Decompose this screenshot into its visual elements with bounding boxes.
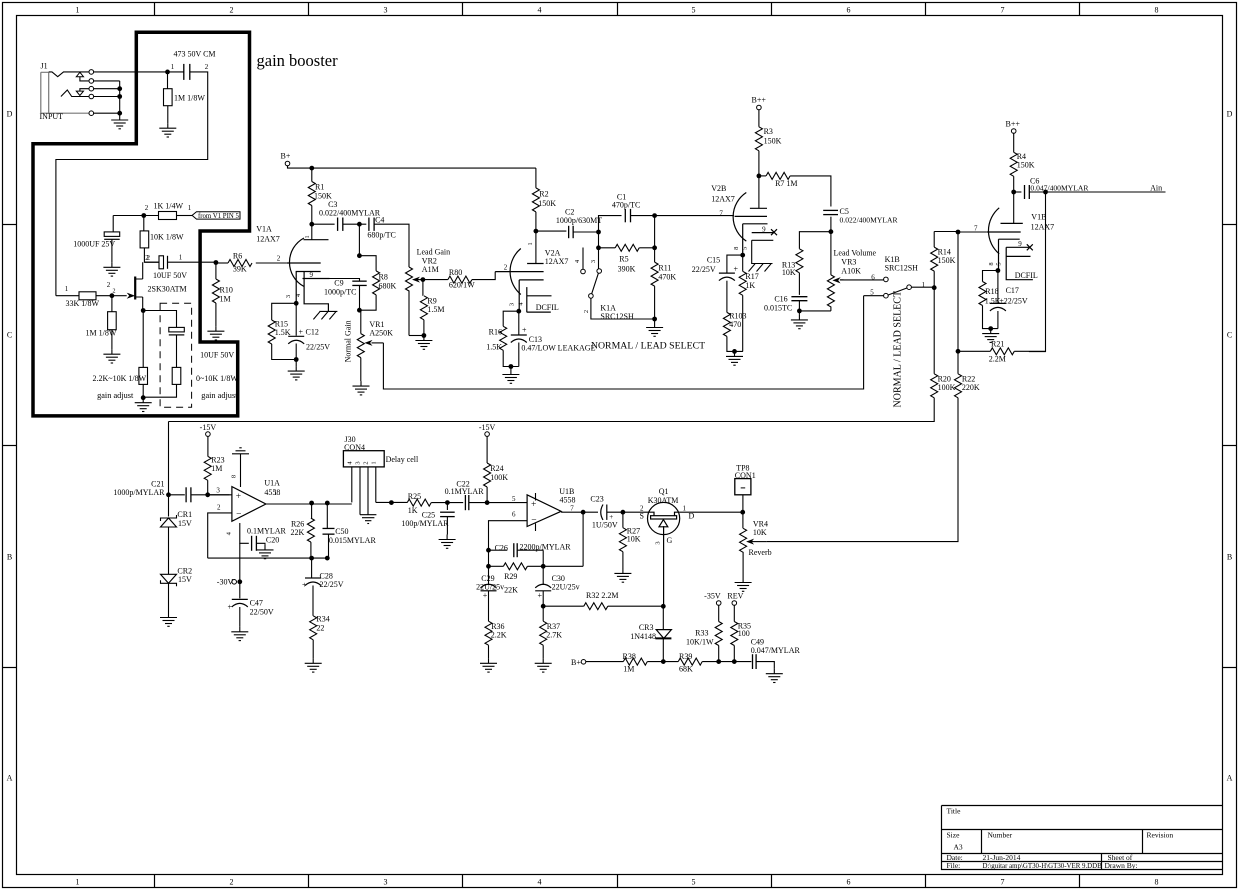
svg-text:12AX7: 12AX7 xyxy=(256,235,280,244)
node node xyxy=(596,230,601,235)
svg-text:22U/25v: 22U/25v xyxy=(552,582,580,591)
svg-text:B: B xyxy=(1227,553,1232,562)
wire xyxy=(1013,133,1015,152)
wire xyxy=(518,311,520,335)
terminal K1B-5 xyxy=(884,293,889,298)
terminal J1 xyxy=(89,94,94,99)
wire xyxy=(119,81,121,113)
svg-text:CR1: CR1 xyxy=(177,510,192,519)
resistor R8 xyxy=(373,271,380,295)
capacitor C13 0.47 xyxy=(511,335,527,343)
capacitor C26 2200p/MYLAR xyxy=(514,543,517,557)
svg-text:680K: 680K xyxy=(379,281,397,290)
svg-text:220K: 220K xyxy=(962,383,980,392)
svg-text:4: 4 xyxy=(538,6,542,15)
wire R22 to VR4 wiper xyxy=(767,398,958,542)
svg-text:150K: 150K xyxy=(938,256,956,265)
potentiometer VR3 A10K xyxy=(827,275,834,311)
node node xyxy=(485,500,490,505)
svg-text:A: A xyxy=(7,774,13,783)
svg-text:0.047/MYLAR: 0.047/MYLAR xyxy=(751,646,801,655)
ground under CR2 xyxy=(160,613,177,627)
resistor R20 xyxy=(931,374,938,398)
wire xyxy=(446,503,448,510)
svg-text:3: 3 xyxy=(590,260,597,263)
node node xyxy=(732,659,737,664)
node node xyxy=(325,501,330,506)
svg-text:R17: R17 xyxy=(745,272,758,281)
svg-text:2: 2 xyxy=(230,6,234,15)
wire xyxy=(168,71,184,73)
svg-text:-15V: -15V xyxy=(200,423,217,432)
svg-text:21-Jun-2014: 21-Jun-2014 xyxy=(983,853,1021,862)
wire xyxy=(272,344,297,360)
resistor R15 xyxy=(268,320,275,344)
capacitor C23 1U/50V xyxy=(601,505,607,520)
wire xyxy=(758,110,760,127)
resistor R13 xyxy=(796,249,803,273)
svg-text:B: B xyxy=(7,553,12,562)
ground under C16 xyxy=(791,315,808,329)
svg-text:1M: 1M xyxy=(211,464,222,473)
capacitor C15 22/25V xyxy=(719,273,735,281)
svg-text:470K: 470K xyxy=(658,273,676,282)
svg-text:2: 2 xyxy=(277,255,281,263)
svg-text:+: + xyxy=(227,603,232,612)
svg-text:22K: 22K xyxy=(291,528,305,537)
wiper VR4 xyxy=(752,541,767,543)
node node xyxy=(357,253,362,258)
svg-text:1000p/630MT: 1000p/630MT xyxy=(556,216,602,225)
wire K1B-5 xyxy=(864,295,884,297)
wire xyxy=(295,344,297,360)
wire xyxy=(168,527,170,574)
wire xyxy=(957,232,959,351)
svg-text:A250K: A250K xyxy=(369,329,393,338)
node source node xyxy=(141,308,146,313)
wire xyxy=(1014,191,1022,193)
svg-text:R10: R10 xyxy=(220,286,233,295)
svg-text:1M: 1M xyxy=(623,665,634,674)
svg-text:100K: 100K xyxy=(490,473,508,482)
svg-text:R2: R2 xyxy=(539,190,548,199)
svg-text:3: 3 xyxy=(285,295,292,298)
chassis ground V1A heater xyxy=(313,311,337,319)
resistor R26 xyxy=(307,518,314,542)
svg-text:10K/1W: 10K/1W xyxy=(686,637,714,646)
op-amp U1A 4558 xyxy=(232,487,266,522)
wire xyxy=(799,310,831,312)
svg-text:2.7K: 2.7K xyxy=(546,631,562,640)
terminal B++ xyxy=(1011,129,1016,134)
wire xyxy=(191,494,230,496)
svg-text:C28: C28 xyxy=(320,571,333,580)
svg-text:4: 4 xyxy=(538,878,542,887)
svg-text:1: 1 xyxy=(179,254,183,262)
wire xyxy=(207,436,209,456)
svg-text:5: 5 xyxy=(692,878,696,887)
wire xyxy=(518,343,520,367)
node node xyxy=(956,349,961,354)
ground under C25 xyxy=(439,535,456,549)
capacitor C3 0.022/400MYLAR xyxy=(338,218,343,231)
wire xyxy=(359,295,376,310)
wire xyxy=(144,261,159,263)
wiper VR1 xyxy=(372,342,384,344)
svg-text:Lead Volume: Lead Volume xyxy=(834,249,877,258)
svg-text:3: 3 xyxy=(355,461,362,464)
resistor R24 xyxy=(484,463,491,487)
svg-text:1M 1/8W: 1M 1/8W xyxy=(174,94,205,103)
wire U1A out xyxy=(266,503,352,505)
wire K1A pin4 stub xyxy=(582,248,584,270)
svg-text:Revision: Revision xyxy=(1147,831,1174,840)
net flag: from V1 PIN 5 xyxy=(192,212,240,219)
wire xyxy=(168,422,170,495)
wire xyxy=(143,216,145,231)
wire xyxy=(144,248,159,262)
svg-text:R24: R24 xyxy=(490,464,503,473)
wire R1 to plate xyxy=(311,206,313,240)
wire xyxy=(718,605,720,621)
wire xyxy=(358,224,360,256)
node node xyxy=(581,510,586,515)
svg-text:1: 1 xyxy=(274,489,278,497)
wire xyxy=(542,566,544,585)
svg-text:U1B: U1B xyxy=(559,487,574,496)
capacitor C20 0.1MYLAR xyxy=(252,536,257,551)
capacitor C30 22U/25v xyxy=(535,584,551,591)
ground after C20 xyxy=(257,545,274,559)
svg-text:150K: 150K xyxy=(314,192,332,201)
wire xyxy=(535,212,537,264)
wire xyxy=(56,295,112,297)
wire xyxy=(112,216,114,232)
svg-text:R11: R11 xyxy=(658,264,671,273)
wire xyxy=(215,263,217,280)
wire J30-2 xyxy=(367,467,369,515)
wire xyxy=(359,286,361,311)
dashed option box xyxy=(160,303,192,407)
svg-text:1U/50V: 1U/50V xyxy=(592,521,618,530)
wire xyxy=(639,247,654,249)
svg-text:12AX7: 12AX7 xyxy=(545,257,569,266)
svg-text:C15: C15 xyxy=(707,256,720,265)
ground after C49 xyxy=(766,669,783,683)
wire xyxy=(647,661,678,663)
resistor R103 xyxy=(723,312,730,336)
svg-text:4558: 4558 xyxy=(264,488,280,497)
wire xyxy=(957,351,959,374)
wire xyxy=(756,662,774,669)
wire xyxy=(376,501,407,503)
svg-text:R16: R16 xyxy=(489,328,502,337)
svg-text:Number: Number xyxy=(988,831,1013,840)
node V2A cathode node xyxy=(516,309,521,314)
svg-text:G: G xyxy=(667,536,673,545)
wire xyxy=(599,216,622,232)
wire xyxy=(542,591,544,621)
node node xyxy=(166,492,171,497)
terminal -35V xyxy=(716,601,721,606)
resistor R4 xyxy=(1010,152,1017,176)
resistor R17 xyxy=(739,271,746,295)
ground V2B cathode gnd xyxy=(726,351,743,365)
wire xyxy=(312,586,314,616)
resistor R1 xyxy=(308,182,315,206)
svg-text:0.022/400MYLAR: 0.022/400MYLAR xyxy=(840,216,899,225)
svg-text:R18: R18 xyxy=(985,287,998,296)
svg-text:INPUT: INPUT xyxy=(40,112,64,121)
svg-text:A1M: A1M xyxy=(422,265,439,274)
node V2A plate node xyxy=(534,229,539,234)
wires J1 contacts xyxy=(94,81,120,113)
svg-text:DCFIL: DCFIL xyxy=(1015,271,1038,280)
wire K1B common xyxy=(911,286,934,288)
node node xyxy=(829,229,834,234)
wire xyxy=(536,230,567,232)
capacitor 10UF 50V xyxy=(159,256,164,269)
capacitor C4 680p/TC xyxy=(369,218,374,231)
wire xyxy=(599,247,616,249)
svg-text:U1A: U1A xyxy=(264,479,280,488)
capacitor C25 100p/MYLAR xyxy=(440,512,455,516)
node V1B grid node xyxy=(956,230,961,235)
ground under R9 xyxy=(415,336,432,350)
svg-text:1N4148: 1N4148 xyxy=(630,632,656,641)
terminal B+ xyxy=(285,161,290,166)
svg-text:6: 6 xyxy=(871,274,875,282)
wire xyxy=(143,384,176,397)
terminal K1A-3 xyxy=(597,269,602,274)
capacitor 1000UF 25V xyxy=(104,232,120,237)
wire xyxy=(503,350,519,366)
wire pin8 xyxy=(240,454,242,487)
node node xyxy=(652,213,657,218)
svg-text:1000p/MYLAR: 1000p/MYLAR xyxy=(113,488,165,497)
resistor 33K 1/8W (box) xyxy=(79,292,96,300)
wire xyxy=(488,591,490,621)
svg-text:0.1MYLAR: 0.1MYLAR xyxy=(445,487,485,496)
wire xyxy=(311,558,313,578)
wire xyxy=(176,335,178,368)
capacitor C50 0.015MYLAR xyxy=(323,528,335,534)
svg-text:7: 7 xyxy=(719,210,723,218)
resistor R80 xyxy=(448,276,472,283)
svg-text:33K 1/8W: 33K 1/8W xyxy=(66,299,100,308)
svg-text:C: C xyxy=(1227,331,1232,340)
wire xyxy=(798,273,800,295)
wire xyxy=(662,606,664,629)
terminal -30V xyxy=(232,580,237,585)
wire xyxy=(983,271,998,282)
svg-text:6: 6 xyxy=(847,6,851,15)
svg-text:gain adjust: gain adjust xyxy=(201,391,238,400)
svg-text:R34: R34 xyxy=(316,615,329,624)
wire 10UF to R6 xyxy=(168,261,216,263)
potentiometer VR4 10K xyxy=(740,528,747,577)
tube V1B 12AX7 (triode) xyxy=(987,208,1033,280)
wiper VR2 xyxy=(418,279,423,281)
wire xyxy=(167,106,169,124)
svg-text:2: 2 xyxy=(145,204,149,212)
resistor R34 xyxy=(310,616,317,640)
svg-text:+: + xyxy=(236,492,241,502)
svg-text:SRC12SH: SRC12SH xyxy=(885,264,919,273)
resistor R3 xyxy=(755,127,762,151)
svg-text:0.015TC: 0.015TC xyxy=(764,304,792,313)
wire xyxy=(598,248,600,269)
svg-text:SRC12SH: SRC12SH xyxy=(600,312,634,321)
svg-text:7: 7 xyxy=(570,505,574,513)
capacitor C6 0.047/400MYLAR xyxy=(1025,185,1030,199)
wire xyxy=(295,360,297,367)
wire xyxy=(654,216,656,263)
junction xyxy=(117,111,122,116)
node VR2 wiper node xyxy=(421,277,426,282)
node node xyxy=(389,500,394,505)
wiper VR3 xyxy=(840,279,844,281)
capacitor C2 1000p/630MT xyxy=(569,226,574,238)
resistor 0~10K 1/8W (box) xyxy=(172,367,181,384)
capacitor C16 0.015TC xyxy=(791,297,807,301)
resistor R6 xyxy=(228,260,252,267)
wire xyxy=(742,295,744,351)
wire gate xyxy=(112,295,127,297)
wire xyxy=(790,176,831,207)
svg-text:1K: 1K xyxy=(408,506,418,515)
node node xyxy=(988,326,993,331)
wire xyxy=(607,511,648,513)
svg-text:VR3: VR3 xyxy=(841,258,856,267)
svg-text:4558: 4558 xyxy=(560,496,576,505)
svg-text:S: S xyxy=(639,512,643,521)
ground under C47 xyxy=(231,627,248,641)
wire xyxy=(933,232,935,248)
capacitor C21 1000p/MYLAR xyxy=(186,487,191,502)
wire xyxy=(168,495,170,517)
resistor R29 xyxy=(503,563,527,570)
ground under VR4 xyxy=(735,578,752,592)
ground under R11 xyxy=(646,323,663,337)
svg-text:C: C xyxy=(7,331,12,340)
svg-text:3: 3 xyxy=(384,878,388,887)
node node xyxy=(205,492,210,497)
chassis ground V2B heater xyxy=(749,264,773,272)
wire xyxy=(958,350,990,352)
svg-text:B+: B+ xyxy=(571,658,581,667)
terminal -15V xyxy=(485,432,490,437)
wire xyxy=(111,296,113,312)
capacitor 10UF 50V (option) xyxy=(169,327,185,332)
wire xyxy=(488,566,490,585)
wire xyxy=(312,223,335,225)
svg-text:D: D xyxy=(7,110,13,119)
svg-text:1000p/TC: 1000p/TC xyxy=(324,288,356,297)
wire xyxy=(622,552,624,569)
node node xyxy=(661,659,666,664)
wire J30-1 xyxy=(375,467,377,503)
wire xyxy=(328,534,330,558)
svg-text:C12: C12 xyxy=(306,328,319,337)
svg-text:5: 5 xyxy=(741,247,748,250)
svg-text:1000UF 25V: 1000UF 25V xyxy=(73,240,115,249)
svg-text:CR3: CR3 xyxy=(639,623,654,632)
resistor R37 xyxy=(540,621,547,645)
terminal -15V xyxy=(206,432,211,437)
resistor R39 xyxy=(678,658,702,665)
wire B+ to R2 xyxy=(535,168,537,188)
wire xyxy=(742,495,744,529)
svg-text:2SK30ATM: 2SK30ATM xyxy=(148,285,187,294)
svg-text:+: + xyxy=(299,328,304,337)
svg-text:0.022/400MYLAR: 0.022/400MYLAR xyxy=(319,209,381,218)
resistor R27 xyxy=(619,528,626,552)
node V2B plate node xyxy=(757,174,762,179)
wire xyxy=(486,436,488,463)
terminal K1B-6 xyxy=(884,277,889,282)
node node xyxy=(486,564,491,569)
wire xyxy=(111,330,113,350)
wire xyxy=(742,255,744,271)
resistor 1K 1/4W (box) xyxy=(159,212,177,220)
node node xyxy=(309,556,314,561)
terminal J1 sleeve xyxy=(89,111,94,116)
svg-text:1: 1 xyxy=(527,242,534,245)
svg-text:R36: R36 xyxy=(491,622,504,631)
wire xyxy=(759,175,766,177)
svg-text:C20: C20 xyxy=(266,536,279,545)
svg-text:B++: B++ xyxy=(752,96,767,105)
svg-text:R32 2.2M: R32 2.2M xyxy=(586,591,618,600)
svg-text:0.047/400MYLAR: 0.047/400MYLAR xyxy=(1030,184,1089,193)
wire U1A inv input xyxy=(208,513,232,558)
wire xyxy=(218,262,229,264)
svg-text:C47: C47 xyxy=(250,599,263,608)
svg-text:Normal Gain: Normal Gain xyxy=(344,320,353,362)
connector TP8 CON1 xyxy=(735,479,751,495)
svg-text:1: 1 xyxy=(76,878,80,887)
connector J30 CON4 delay cell xyxy=(343,451,384,467)
potentiometer VR1 A250K xyxy=(360,310,362,333)
wire xyxy=(830,217,832,275)
wire xyxy=(142,384,144,397)
wire xyxy=(517,549,543,551)
svg-text:620/1W: 620/1W xyxy=(449,281,475,290)
svg-text:R5: R5 xyxy=(619,255,628,264)
node V2B cathode node xyxy=(740,253,745,258)
svg-text:150K: 150K xyxy=(1017,161,1035,170)
svg-text:10UF 50V: 10UF 50V xyxy=(200,351,234,360)
svg-text:2: 2 xyxy=(145,254,149,262)
capacitor C9 1000p/TC xyxy=(352,281,366,285)
svg-text:CON4: CON4 xyxy=(344,443,365,452)
ground under VR1 xyxy=(353,381,370,395)
svg-text:C23: C23 xyxy=(590,495,603,504)
svg-text:1.5K: 1.5K xyxy=(486,343,502,352)
svg-text:File:: File: xyxy=(947,861,961,870)
wire xyxy=(142,311,144,368)
ground under C17 xyxy=(982,329,999,343)
wire xyxy=(598,232,600,248)
svg-text:Size: Size xyxy=(947,831,961,840)
wire to V2B grid xyxy=(655,215,734,217)
svg-text:1: 1 xyxy=(370,461,377,464)
svg-text:7: 7 xyxy=(1001,878,1005,887)
svg-text:2.2M: 2.2M xyxy=(989,355,1006,364)
svg-text:B+: B+ xyxy=(281,152,291,161)
ground under R36 xyxy=(480,658,497,672)
